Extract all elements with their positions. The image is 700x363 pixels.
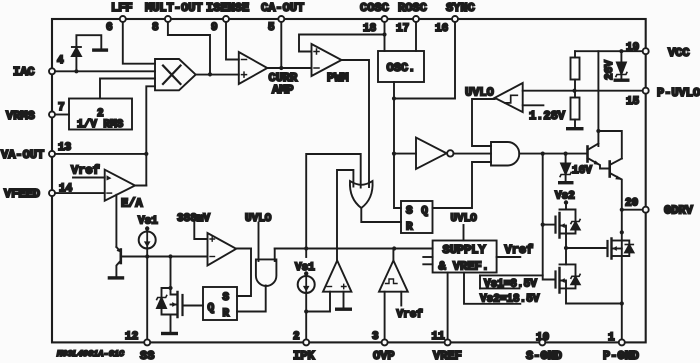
label UVLO (soft-start gate input) bbox=[245, 213, 272, 261]
svg-text:16V: 16V bbox=[572, 165, 592, 177]
svg-text:1.28V: 1.28V bbox=[529, 109, 566, 123]
transistor Q1 (driver darlington) bbox=[588, 144, 610, 169]
latch U1 S/R (PWM) bbox=[401, 162, 491, 234]
svg-text:Vref: Vref bbox=[505, 243, 534, 257]
svg-text:Vref: Vref bbox=[397, 309, 424, 321]
and-gate U2 (gate drive 3-input) bbox=[491, 142, 588, 166]
1/V RMS block bbox=[69, 79, 155, 132]
svg-text:18: 18 bbox=[363, 23, 377, 35]
ground (divider) bbox=[566, 127, 584, 130]
pin 6 LFF bbox=[106, 1, 155, 64]
svg-text:4: 4 bbox=[57, 55, 64, 67]
svg-text:13: 13 bbox=[58, 142, 72, 154]
svg-text:UVLO: UVLO bbox=[465, 86, 494, 100]
svg-text:Vs2=18.5V: Vs2=18.5V bbox=[480, 294, 540, 306]
svg-text:S-GND: S-GND bbox=[526, 349, 562, 363]
node Vs2 terminal bbox=[555, 191, 575, 205]
ground (M4 source) bbox=[161, 332, 178, 335]
svg-text:VA-OUT: VA-OUT bbox=[1, 148, 44, 162]
wire UVLO comparator + input / P-UVLO net bbox=[523, 90, 643, 92]
svg-text:SUPPLY: SUPPLY bbox=[443, 243, 487, 257]
pin 5 CA-OUT bbox=[261, 1, 304, 70]
current source Vs1 (soft start) bbox=[138, 216, 158, 257]
note Vs1=8.5V bbox=[480, 275, 543, 290]
svg-text:ROSC: ROSC bbox=[398, 1, 427, 15]
transistor M1 bbox=[556, 205, 569, 251]
svg-text:Vs1: Vs1 bbox=[138, 216, 158, 228]
multiplier X bbox=[155, 59, 239, 90]
svg-text:15: 15 bbox=[626, 96, 640, 108]
wire gate-drive to M1/M2 gates bbox=[541, 154, 556, 280]
comparator IPK bbox=[306, 261, 351, 312]
svg-text:P-GND: P-GND bbox=[603, 349, 639, 363]
svg-text:LFF: LFF bbox=[111, 1, 133, 15]
svg-text:2: 2 bbox=[293, 331, 300, 343]
resistor R2 (UVLO divider lower) bbox=[571, 91, 580, 127]
label 1.28V reference bbox=[523, 105, 566, 123]
node VA-OUT / E/A output riser to multiplier bbox=[135, 86, 155, 185]
pin 15 P-UVLO bbox=[626, 86, 700, 108]
svg-text:M93L4901A-01C: M93L4901A-01C bbox=[56, 349, 125, 359]
label Vref (supply output) bbox=[497, 243, 534, 257]
pin 12 SS bbox=[125, 257, 154, 363]
label Vref (E/A input) bbox=[71, 164, 105, 178]
transistor Q2 (driver darlington) bbox=[610, 159, 622, 210]
svg-text:VCC: VCC bbox=[668, 46, 690, 60]
pin 20 GDRV bbox=[620, 198, 694, 218]
svg-text:VREF: VREF bbox=[433, 349, 462, 363]
clamp diode on IAC bbox=[72, 35, 101, 71]
svg-text:VRMS: VRMS bbox=[6, 109, 35, 123]
svg-text:6: 6 bbox=[106, 22, 113, 34]
protection rail node bbox=[275, 246, 433, 250]
svg-text:IPK: IPK bbox=[293, 349, 315, 363]
svg-text:20: 20 bbox=[625, 198, 638, 210]
pin 18 COSC bbox=[299, 1, 389, 52]
svg-text:GDRV: GDRV bbox=[664, 204, 694, 218]
zener 16V (drive clamp) bbox=[560, 154, 592, 181]
svg-text:SYNC: SYNC bbox=[446, 1, 475, 15]
transistor M4 (soft-start discharge MOSFET) bbox=[168, 257, 182, 332]
svg-text:OSC.: OSC. bbox=[387, 61, 416, 75]
label UVLO (supply output) bbox=[451, 213, 478, 241]
comparator OVP bbox=[379, 249, 408, 340]
pin 10 S-GND bbox=[526, 332, 562, 363]
svg-text:P-UVLO: P-UVLO bbox=[657, 86, 700, 100]
wire GDRV node to P-GND bbox=[620, 210, 624, 306]
ground (16V zener) bbox=[558, 181, 574, 184]
svg-text:16: 16 bbox=[435, 23, 448, 35]
svg-text:Vref: Vref bbox=[71, 164, 100, 178]
or-gate (PWM reset) bbox=[350, 181, 401, 222]
svg-text:SS: SS bbox=[140, 349, 154, 363]
op-amp E/A bbox=[105, 170, 147, 211]
ground (IAC clamp) bbox=[92, 48, 108, 51]
svg-text:Q: Q bbox=[208, 303, 215, 315]
zener (M4 body) bbox=[157, 288, 171, 315]
wire VCC feed to driver collectors bbox=[596, 51, 621, 158]
svg-text:S: S bbox=[223, 292, 230, 304]
zener 26V bbox=[604, 51, 627, 80]
oscillator OSC block bbox=[378, 51, 424, 208]
comparator UVLO bbox=[465, 83, 523, 146]
svg-text:S: S bbox=[406, 206, 413, 218]
svg-text:17: 17 bbox=[396, 23, 409, 35]
svg-text:VFEED: VFEED bbox=[4, 187, 40, 201]
svg-text:R: R bbox=[223, 308, 230, 320]
pin 4 IAC bbox=[13, 55, 155, 79]
wire M3 gate bbox=[566, 247, 604, 249]
svg-text:26V: 26V bbox=[604, 60, 616, 80]
svg-text:UVLO: UVLO bbox=[451, 213, 478, 225]
pin 7 VRMS bbox=[6, 102, 69, 123]
block SUPPLY & VREF bbox=[423, 241, 496, 274]
pin 17 ROSC bbox=[396, 1, 427, 51]
ground (26V zener) bbox=[614, 79, 630, 82]
and-gate U4 (soft-start reset) bbox=[256, 249, 277, 287]
svg-text:19: 19 bbox=[626, 42, 639, 54]
transistor Q3 (E/A clamp) bbox=[116, 195, 207, 276]
svg-text:IAC: IAC bbox=[13, 65, 35, 79]
note Vs2=18.5V bbox=[480, 288, 540, 305]
svg-text:12: 12 bbox=[125, 331, 138, 343]
svg-text:3: 3 bbox=[372, 331, 379, 343]
pin 3 OVP bbox=[372, 331, 395, 363]
pin 11 VREF bbox=[432, 273, 462, 363]
svg-text:8: 8 bbox=[152, 22, 159, 34]
diode (M3 body) bbox=[622, 241, 634, 257]
pin 19 VCC bbox=[575, 42, 690, 60]
pin 14 VFEED bbox=[4, 183, 105, 201]
svg-text:AMP: AMP bbox=[272, 83, 294, 97]
ground (IPK comparator) bbox=[335, 308, 352, 311]
svg-text:COSC: COSC bbox=[360, 1, 389, 15]
svg-text:MULT-OUT: MULT-OUT bbox=[145, 1, 203, 15]
svg-text:E/A: E/A bbox=[121, 197, 143, 211]
pin 8 MULT-OUT bbox=[145, 1, 212, 77]
svg-text:5: 5 bbox=[268, 22, 275, 34]
svg-text:ISENSE: ISENSE bbox=[206, 1, 249, 15]
svg-text:CA-OUT: CA-OUT bbox=[261, 1, 304, 15]
pin 9 ISENSE bbox=[206, 1, 249, 60]
comparator 388mV bbox=[177, 213, 251, 266]
zener (M2 body) bbox=[566, 264, 580, 288]
svg-text:R: R bbox=[406, 222, 413, 234]
pin 2 IPK bbox=[293, 331, 315, 363]
svg-text:7: 7 bbox=[58, 102, 65, 114]
pin 1 P-GND bbox=[603, 304, 639, 363]
svg-text:9: 9 bbox=[211, 22, 218, 34]
svg-text:PWM: PWM bbox=[327, 71, 349, 85]
resistor R1 (UVLO divider upper) bbox=[571, 51, 580, 93]
wire Vs2 supply output bbox=[464, 273, 520, 304]
current source Vs1 (peak limit) bbox=[295, 249, 315, 340]
svg-text:Q: Q bbox=[421, 206, 428, 218]
zener (M1 body) bbox=[566, 210, 580, 234]
pin 13 VA-OUT bbox=[1, 142, 148, 162]
op-amp PWM bbox=[312, 44, 370, 187]
op-amp CURR AMP bbox=[239, 52, 312, 97]
transistor M2 bbox=[556, 248, 622, 304]
wire OR input from protection rail (x306) bbox=[306, 154, 361, 249]
pin 16 SYNC bbox=[392, 1, 475, 101]
svg-text:1: 1 bbox=[608, 332, 615, 344]
inverter (clock) bbox=[394, 138, 491, 170]
svg-text:1/V RMS: 1/V RMS bbox=[77, 119, 124, 131]
svg-text:OVP: OVP bbox=[373, 349, 395, 363]
svg-text:& VREF.: & VREF. bbox=[439, 260, 489, 274]
ground (E/A clamp) bbox=[108, 276, 125, 279]
svg-text:11: 11 bbox=[432, 331, 446, 343]
transistor M3 (output pull-down) bbox=[604, 239, 622, 259]
wire OR input from IPK comparator (x337) bbox=[337, 170, 353, 260]
IC body outline bbox=[52, 19, 646, 342]
latch U3 S/R (soft start) bbox=[183, 249, 266, 321]
